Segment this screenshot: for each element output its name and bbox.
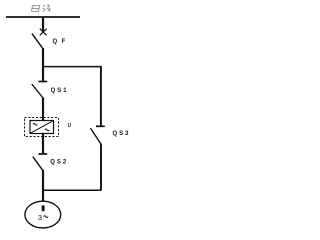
wire bus to QF: [42, 17, 44, 33]
converter U dashed enclosure: [25, 118, 59, 137]
disconnector QS3 contact tick: [96, 125, 105, 127]
disconnector QS1 contact tick: [38, 81, 47, 83]
svg-text:3: 3: [38, 213, 42, 222]
wire QS1 to converter: [42, 98, 44, 121]
breaker QF contact X: [40, 29, 47, 36]
wire tee to right branch: [43, 66, 101, 68]
disconnector QS2 contact tick: [38, 153, 47, 155]
converter U inner box: [30, 121, 54, 134]
disconnector QS3 blade: [91, 128, 102, 144]
motor M circle: [25, 201, 61, 228]
wire converter to QS2: [42, 134, 44, 154]
node busbar label 母线: [32, 5, 51, 12]
motor M mark: [42, 205, 45, 211]
bus line: [6, 16, 80, 18]
wire QF to QS1: [42, 48, 44, 81]
svg-text:QS2: QS2: [50, 160, 68, 166]
svg-text:QS3: QS3: [113, 131, 131, 137]
disconnector QS2 blade: [33, 157, 43, 171]
right branch lower wire: [100, 144, 102, 190]
wire bottom join: [43, 189, 101, 191]
svg-text:QS1: QS1: [51, 88, 69, 94]
svg-text:U: U: [68, 123, 71, 129]
breaker QF blade: [32, 34, 43, 49]
wire QS2 to motor: [42, 170, 44, 202]
converter AC mark bottom-right ~: [45, 129, 49, 131]
right branch upper wire: [100, 66, 102, 126]
svg-text:QF: QF: [53, 39, 70, 45]
converter AC mark top-left ~: [33, 124, 37, 126]
converter U diagonal: [30, 121, 53, 134]
disconnector QS1 blade: [32, 84, 43, 98]
